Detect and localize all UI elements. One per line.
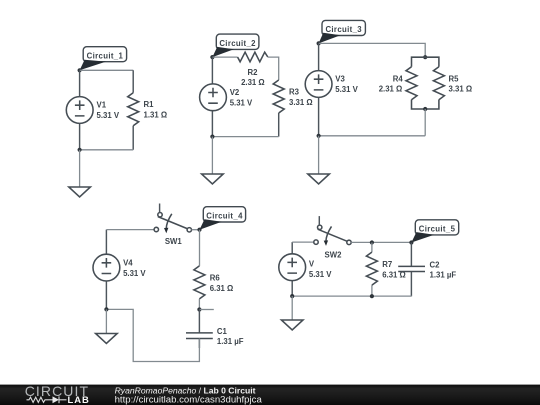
wire switch to node circuit4 [192,229,200,231]
label callout Circuit_5 [415,220,458,235]
svg-text:R6: R6 [210,274,221,283]
voltage source V3 [305,43,332,135]
capacitor C1 [186,310,213,349]
resistor R7 [366,243,377,297]
svg-text:R2: R2 [248,68,259,77]
node bottom circuit1 [78,148,82,152]
logo resistor squiggle and diode [27,396,67,403]
capacitor C2 [398,243,425,297]
svg-text:3.31 Ω: 3.31 Ω [289,98,313,107]
svg-text:Circuit_3: Circuit_3 [325,25,362,34]
svg-text:2.31 Ω: 2.31 Ω [379,85,403,94]
resistor R4 [406,67,417,100]
ground circuit3 [308,136,330,184]
callout tail [212,47,234,57]
value label V3 5.31 V [335,74,358,93]
svg-text:3.31 Ω: 3.31 Ω [449,85,473,94]
ground circuit5 [281,296,303,330]
svg-text:V4: V4 [123,259,133,268]
svg-text:R1: R1 [144,100,155,109]
ground circuit1 [69,150,91,197]
ground circuit2 [202,137,224,184]
svg-text:V2: V2 [230,88,240,97]
node bottom left circuit5 [290,294,294,298]
wire bottom rail circuit1 [80,149,134,151]
wire bottom rail circuit5 [292,295,411,297]
svg-text:1.31 µF: 1.31 µF [430,271,457,280]
wire parallel drop circuit3 [424,109,426,136]
wire top rail circuit3 [319,43,426,57]
svg-text:SW2: SW2 [325,251,343,260]
wire top rail circuit2 [212,56,237,58]
node bottom circuit3 [317,134,321,138]
node C2 top circuit5 [409,240,413,244]
value label R5 3.31 ohm [449,74,473,93]
svg-text:V: V [309,259,315,268]
node parallel bottom circuit3 [423,107,427,111]
label callout Circuit_4 [203,207,245,222]
wire stub right circuit4 [199,309,213,311]
ground circuit4 [96,309,118,343]
value label R7 6.31 ohm [382,260,406,280]
switch SW1 [154,204,191,234]
value label V 5.31 V [309,259,332,279]
wire parallel bottom bracket [412,100,439,109]
label callout Circuit_2 [216,34,259,49]
voltage source V4 [93,230,120,310]
callout tail [80,60,106,71]
resistor R1 [128,70,139,150]
voltage source V1 [66,70,93,150]
wire switch to nodes circuit5 [351,241,411,243]
value label R4 2.31 ohm [379,74,404,93]
value label R1 1.31 ohm [144,100,168,119]
svg-text:5.31 V: 5.31 V [97,111,120,120]
svg-text:R4: R4 [393,74,404,83]
wire bottom loop circuit4 [106,309,199,361]
wire node to R6 [199,230,201,266]
wire source to switch circuit5 [292,241,314,243]
node R7 bottom circuit5 [370,294,374,298]
svg-text:1.31 Ω: 1.31 Ω [144,111,168,120]
resistor R3 [273,80,284,137]
value label C2 1.31 uF [430,261,457,280]
svg-text:Circuit_1: Circuit_1 [87,52,124,61]
value label R2 2.31 ohm [241,68,265,87]
svg-text:LAB: LAB [68,394,90,405]
svg-text:V1: V1 [97,100,107,109]
value label R3 3.31 ohm [289,88,313,107]
value label V1 5.31 V [97,100,120,120]
resistor R6 [194,266,205,299]
svg-text:5.31 V: 5.31 V [309,270,332,279]
svg-text:R5: R5 [449,74,460,83]
svg-text:5.31 V: 5.31 V [123,269,146,278]
wire bottom rail circuit3 [319,135,426,137]
voltage source V2 [200,57,227,137]
node switch circuit4 [197,228,201,232]
wire top rail circuit1 [80,69,134,71]
svg-text:C1: C1 [217,327,228,336]
label callout Circuit_3 [322,20,365,35]
node bottom circuit4 [104,307,108,311]
svg-text:R7: R7 [382,260,392,269]
svg-text:Circuit_4: Circuit_4 [206,212,243,221]
node top-left circuit2 [210,55,214,59]
value label V2 5.31 V [230,88,253,108]
svg-text:SW1: SW1 [165,237,183,246]
wire R6 to node circuit4 [198,299,200,310]
switch SW2 [314,216,351,246]
node R6-C1 circuit4 [197,307,201,311]
svg-text:5.31 V: 5.31 V [230,99,253,108]
svg-text:Circuit_2: Circuit_2 [219,39,256,48]
svg-text:C2: C2 [430,261,441,270]
value label V4 5.31 V [123,259,146,278]
resistor R2 [238,52,268,62]
svg-text:6.31 Ω: 6.31 Ω [210,284,234,293]
node parallel top circuit3 [423,55,427,59]
svg-text:R3: R3 [289,88,300,97]
node R7 top circuit5 [370,240,374,244]
callout tail [319,33,341,44]
voltage source V [279,242,306,296]
label callout Circuit_1 [83,47,126,62]
callout tail [200,219,222,229]
svg-text:http://circuitlab.com/casn3duh: http://circuitlab.com/casn3duhfpjca [115,394,263,405]
svg-text:5.31 V: 5.31 V [335,85,358,94]
resistor R5 [433,67,444,100]
wire source to switch circuit4 [106,229,154,231]
svg-text:V3: V3 [335,74,345,83]
wire parallel top bracket [412,57,439,67]
wire top-right corner circuit2 [268,57,279,80]
value label C1 1.31 uF [217,327,244,346]
svg-text:Circuit_5: Circuit_5 [419,225,456,234]
callout tail [411,232,434,242]
node bottom circuit2 [210,135,214,139]
value label R6 6.31 ohm [210,274,234,293]
svg-text:1.31 µF: 1.31 µF [217,337,244,346]
wire bottom rail circuit2 [212,136,278,138]
node top-left circuit1 [78,68,82,72]
svg-text:2.31 Ω: 2.31 Ω [241,78,265,87]
node top-left circuit3 [317,41,321,45]
